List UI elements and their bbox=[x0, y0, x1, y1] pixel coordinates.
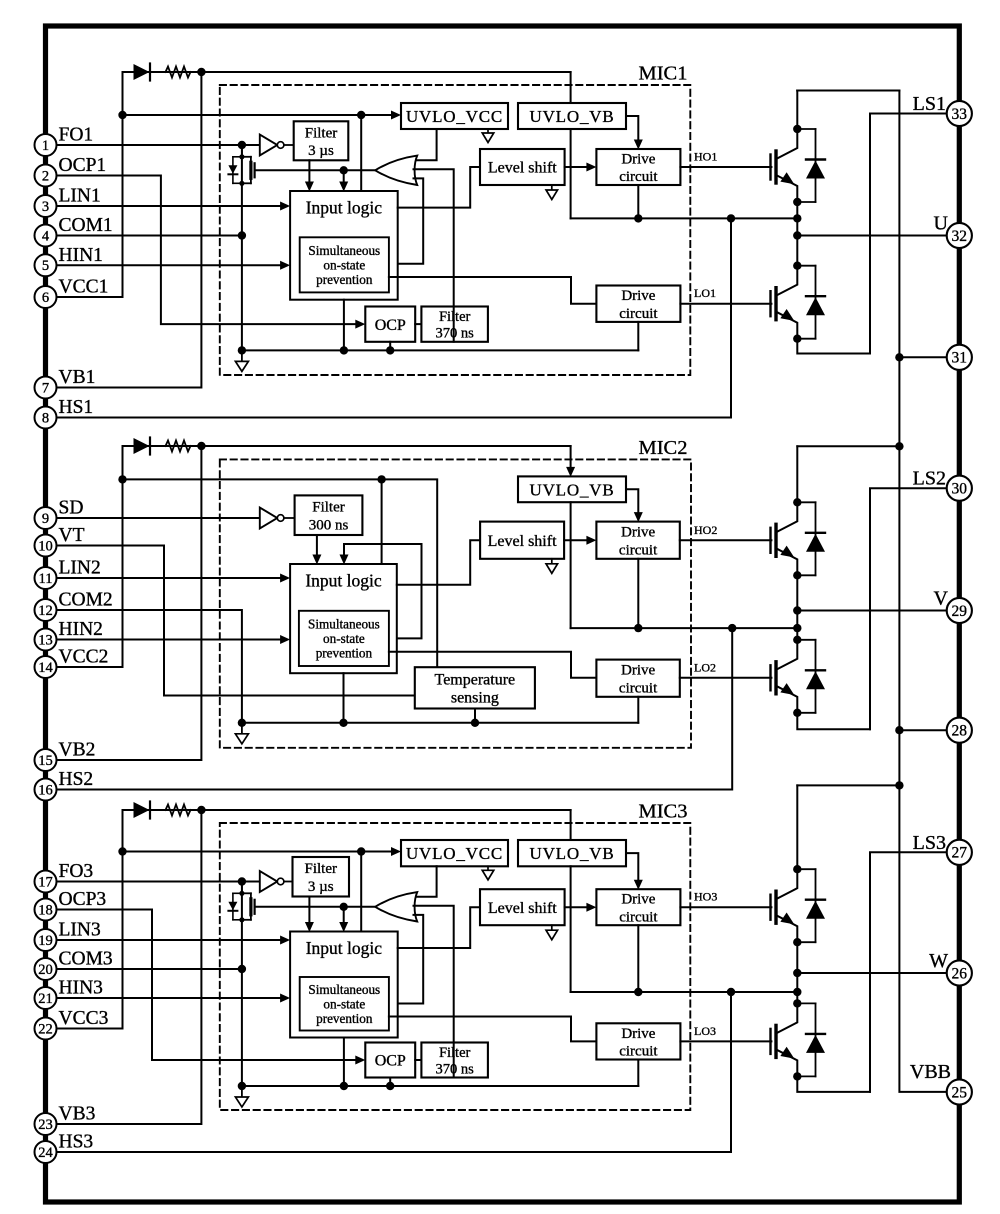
bootstrap wire to UVLO_VB (MIC3) bbox=[123, 810, 571, 863]
wire HS3 to pin bbox=[56, 992, 731, 1152]
wire emitter bbox=[776, 1049, 797, 1076]
wire LO1 bbox=[680, 303, 771, 305]
wire level shift to drive (MIC1) bbox=[565, 166, 593, 168]
wire fault to input logic (MIC1) bbox=[343, 170, 345, 188]
low-side Drive circuit (MIC3) bbox=[596, 1023, 680, 1059]
svg-text:V: V bbox=[934, 588, 949, 610]
pin 2 bbox=[35, 165, 57, 187]
svg-text:W: W bbox=[929, 950, 948, 972]
svg-text:LIN3: LIN3 bbox=[59, 920, 101, 941]
pin 24 bbox=[35, 1141, 57, 1163]
phase node wire 3 bbox=[796, 942, 798, 1003]
wire HIN3 bbox=[56, 997, 286, 999]
wire HO2 bbox=[680, 539, 772, 541]
node P-bus junction phase 2 bbox=[895, 442, 903, 450]
bootstrap diode D3 bbox=[123, 809, 134, 811]
wire input logic to level shift (MIC1) bbox=[398, 167, 480, 208]
wire prevention to low drive (MIC2) bbox=[389, 652, 597, 678]
svg-text:29: 29 bbox=[952, 603, 968, 620]
pin 12 bbox=[35, 599, 57, 621]
svg-text:OCP: OCP bbox=[375, 317, 406, 334]
freewheel diode bbox=[797, 501, 815, 503]
bootstrap resistor R3 bbox=[151, 809, 166, 811]
wire drive to floating ref (MIC2) bbox=[637, 559, 639, 628]
Simultaneous on-state prevention (MIC1) bbox=[300, 237, 389, 292]
svg-text:9: 9 bbox=[42, 511, 49, 527]
wire level shift to drive (MIC3) bbox=[565, 906, 593, 908]
svg-text:VCC3: VCC3 bbox=[59, 1008, 109, 1029]
svg-text:14: 14 bbox=[38, 660, 53, 676]
svg-text:28: 28 bbox=[952, 723, 968, 740]
svg-text:circuit: circuit bbox=[619, 680, 658, 696]
svg-text:circuit: circuit bbox=[619, 306, 658, 322]
pin 8 bbox=[35, 407, 57, 429]
level shift status arrow (MIC1) bbox=[551, 185, 553, 190]
svg-text:FO3: FO3 bbox=[59, 861, 94, 882]
wire VCC sense bus (MIC2) bbox=[123, 479, 438, 667]
Filter 3 us (MIC1) bbox=[294, 121, 349, 160]
svg-text:UVLO_VB: UVLO_VB bbox=[530, 844, 615, 863]
pin 33 bbox=[947, 101, 972, 126]
svg-text:20: 20 bbox=[38, 962, 53, 978]
wire OCP1 from pin bbox=[56, 176, 361, 325]
wire LO3 bbox=[680, 1040, 771, 1042]
wire prevention to low drive (MIC3) bbox=[389, 1017, 597, 1042]
bootstrap wire to UVLO_VB (MIC1) bbox=[123, 72, 571, 126]
pin 21 bbox=[35, 987, 57, 1009]
node logic-supply junction (MIC1) bbox=[357, 111, 365, 119]
wire UVLO_VCC to OR gate (MIC1) bbox=[414, 129, 437, 160]
svg-text:UVLO_VB: UVLO_VB bbox=[530, 107, 615, 126]
OR gate (fault logic) bbox=[375, 156, 417, 185]
wire UVLO_VB to floating reference (MIC1) bbox=[570, 129, 572, 218]
svg-text:LIN2: LIN2 bbox=[59, 558, 101, 579]
bootstrap diode D2 bbox=[123, 445, 134, 447]
wire emitter bbox=[776, 312, 797, 339]
node P-bus junction phase 3 bbox=[895, 781, 903, 789]
collector rail phase 1 bbox=[797, 90, 899, 92]
node collector junction bbox=[793, 125, 801, 133]
wire collector bbox=[776, 129, 797, 159]
node VB1 bootstrap junction bbox=[197, 68, 205, 76]
svg-text:circuit: circuit bbox=[619, 909, 658, 925]
wire filter370 to OR (MIC1) bbox=[453, 307, 455, 342]
svg-text:HS2: HS2 bbox=[59, 769, 94, 790]
node COM3 junction bbox=[238, 965, 246, 973]
inverter / buffer bbox=[260, 871, 278, 892]
pin 25 bbox=[947, 1079, 972, 1104]
Level shift (MIC1) bbox=[480, 149, 565, 185]
svg-text:5: 5 bbox=[42, 258, 49, 274]
svg-text:6: 6 bbox=[42, 290, 49, 306]
ground bus (MIC2) bbox=[242, 722, 638, 724]
wire output V to pin bbox=[797, 610, 947, 612]
wire HIN2 bbox=[56, 639, 286, 641]
phase node wire 2 bbox=[796, 575, 798, 640]
wire emitter bbox=[776, 175, 797, 202]
svg-text:HO3: HO3 bbox=[694, 890, 717, 904]
node VCC sense junction (MIC1) bbox=[118, 111, 126, 119]
wire fault to input logic (MIC3) bbox=[343, 907, 345, 929]
ground symbol (MIC3) bbox=[241, 1086, 243, 1097]
level shift status arrow (MIC2) bbox=[551, 559, 553, 564]
low-side Drive circuit (MIC1) bbox=[596, 286, 680, 322]
wire low emitter phase 3 bbox=[797, 1076, 870, 1092]
wire COM3 bbox=[56, 968, 242, 970]
svg-text:Input logic: Input logic bbox=[306, 938, 383, 958]
svg-text:MIC3: MIC3 bbox=[639, 801, 688, 823]
wire collector bbox=[776, 640, 797, 670]
wire HIN1 bbox=[56, 264, 286, 266]
svg-text:on-state: on-state bbox=[323, 631, 365, 646]
wire OR input from prevention (MIC1) bbox=[389, 178, 423, 263]
pin 19 bbox=[35, 929, 57, 951]
node floating-ref junction phase 2 bbox=[793, 624, 801, 632]
wire level shift to drive (MIC2) bbox=[564, 539, 592, 541]
svg-text:8: 8 bbox=[42, 410, 49, 426]
svg-text:circuit: circuit bbox=[619, 169, 658, 185]
collector rail phase 3 bbox=[797, 784, 899, 786]
wire gate bbox=[769, 665, 771, 690]
pin 6 bbox=[35, 286, 57, 308]
svg-text:HS3: HS3 bbox=[59, 1132, 94, 1153]
collector rail phase 2 bbox=[797, 445, 899, 447]
UVLO_VCC (MIC3) bbox=[401, 840, 508, 866]
pin 9 bbox=[35, 507, 57, 529]
node collector junction bbox=[793, 636, 801, 644]
ground bus (MIC1) bbox=[242, 349, 638, 351]
svg-text:1: 1 bbox=[42, 138, 49, 154]
wire collector riser phase 1 bbox=[796, 91, 798, 130]
Filter 370 ns (MIC1) bbox=[421, 307, 488, 342]
node logic-supply junction (MIC3) bbox=[357, 847, 365, 855]
node FO1 junction bbox=[238, 141, 246, 149]
svg-text:circuit: circuit bbox=[619, 1043, 658, 1059]
svg-text:Input logic: Input logic bbox=[305, 571, 382, 591]
node HS1 junction bbox=[727, 214, 735, 222]
wire HO3 bbox=[680, 906, 771, 908]
UVLO_VCC (MIC1) bbox=[401, 103, 508, 129]
wire gate bbox=[769, 155, 771, 180]
svg-text:UVLO_VCC: UVLO_VCC bbox=[406, 107, 503, 126]
svg-text:FO1: FO1 bbox=[59, 125, 94, 146]
wire UVLO_VB to drive enable (MIC2) bbox=[626, 489, 638, 518]
wire gate bbox=[769, 1029, 771, 1054]
wire emitter bbox=[776, 915, 797, 942]
fault-output MOSFET bbox=[241, 882, 243, 894]
svg-text:COM2: COM2 bbox=[59, 590, 113, 611]
low-side Drive circuit (MIC2) bbox=[596, 660, 679, 697]
wire collector riser phase 3 bbox=[796, 785, 798, 869]
UVLO_VB (MIC1) bbox=[518, 103, 626, 129]
svg-text:HO2: HO2 bbox=[694, 523, 717, 537]
wire OCP to filter (MIC1) bbox=[415, 323, 421, 325]
wire filter to input logic (MIC3) bbox=[308, 897, 310, 929]
svg-text:circuit: circuit bbox=[619, 542, 658, 558]
Simultaneous on-state prevention (MIC2) bbox=[299, 611, 389, 666]
svg-text:Simultaneous: Simultaneous bbox=[308, 616, 380, 631]
bootstrap resistor R1 bbox=[151, 71, 166, 73]
svg-text:30: 30 bbox=[952, 481, 968, 498]
wire UVLO_VB to floating reference (MIC2) bbox=[570, 502, 572, 628]
wire UVLO_VB to floating reference (MIC3) bbox=[570, 866, 572, 992]
pin 32 bbox=[947, 223, 972, 248]
freewheel diode bbox=[797, 1002, 815, 1004]
wire OR input from filter 370 (MIC1) bbox=[414, 169, 454, 341]
wire collector bbox=[776, 502, 797, 532]
svg-text:27: 27 bbox=[952, 845, 968, 862]
svg-text:21: 21 bbox=[38, 991, 53, 1007]
node VCC sense junction (MIC2) bbox=[118, 475, 126, 483]
svg-text:370 ns: 370 ns bbox=[436, 325, 475, 341]
svg-text:370 ns: 370 ns bbox=[436, 1061, 475, 1077]
pin 7 bbox=[35, 377, 57, 399]
svg-text:Simultaneous: Simultaneous bbox=[308, 243, 380, 258]
wire pin 31 to P-bus bbox=[899, 356, 947, 358]
svg-text:VB3: VB3 bbox=[59, 1104, 96, 1125]
wire logic supply into Input logic (MIC3) bbox=[360, 852, 362, 932]
wire collector riser phase 2 bbox=[796, 446, 798, 502]
Input logic (MIC1) bbox=[290, 191, 398, 300]
wire collector bbox=[776, 1003, 797, 1033]
svg-text:on-state: on-state bbox=[323, 996, 365, 1011]
pin 3 bbox=[35, 195, 57, 217]
wire filter370 to OR (MIC3) bbox=[453, 1043, 455, 1078]
node VCC sense junction (MIC3) bbox=[118, 847, 126, 855]
wire VCC to UVLO_VCC (MIC1) bbox=[123, 114, 398, 116]
wire SD from pin bbox=[56, 517, 259, 519]
MIC1 dashed block bbox=[220, 85, 691, 375]
svg-text:U: U bbox=[934, 213, 949, 235]
wire temp sensing to ground (MIC2) bbox=[474, 709, 476, 723]
svg-text:Level shift: Level shift bbox=[488, 160, 557, 177]
svg-text:12: 12 bbox=[38, 603, 53, 619]
node emitter junction bbox=[793, 198, 801, 206]
Level shift (MIC3) bbox=[480, 889, 565, 925]
node emitter junction bbox=[793, 709, 801, 717]
svg-text:31: 31 bbox=[952, 350, 968, 367]
ground bus (MIC3) bbox=[242, 1085, 638, 1087]
node floating-ref junction phase 1 bbox=[793, 214, 801, 222]
pin 20 bbox=[35, 958, 57, 980]
wire VCC1 bbox=[56, 296, 122, 298]
svg-text:2: 2 bbox=[42, 168, 49, 184]
wire LIN1 bbox=[56, 205, 286, 207]
wire VCC3 bbox=[56, 1028, 122, 1030]
svg-text:Level shift: Level shift bbox=[488, 533, 557, 550]
node emitter junction bbox=[793, 335, 801, 343]
svg-text:Drive: Drive bbox=[621, 288, 655, 304]
svg-text:16: 16 bbox=[38, 782, 53, 798]
wire emitter bbox=[776, 548, 797, 575]
svg-text:VCC1: VCC1 bbox=[59, 277, 109, 298]
svg-text:HO1: HO1 bbox=[694, 150, 717, 164]
wire floating reference HS3 bbox=[571, 991, 798, 993]
wire drive to floating ref (MIC1) bbox=[637, 185, 639, 218]
node collector junction bbox=[793, 262, 801, 270]
pin 1 bbox=[35, 134, 57, 156]
node VB3 bootstrap junction bbox=[197, 806, 205, 814]
Filter 3 us (MIC3) bbox=[293, 857, 350, 897]
wire input logic to ground (MIC3) bbox=[343, 1038, 345, 1087]
phase node wire 1 bbox=[796, 202, 798, 266]
zener diode (FET protection) bbox=[233, 156, 242, 158]
svg-text:15: 15 bbox=[38, 753, 53, 769]
svg-text:COM1: COM1 bbox=[59, 215, 113, 236]
zener diode (FET protection) bbox=[233, 892, 242, 894]
pin 4 bbox=[35, 225, 57, 247]
svg-text:LS1: LS1 bbox=[913, 93, 946, 115]
svg-text:32: 32 bbox=[952, 228, 968, 245]
svg-text:MIC2: MIC2 bbox=[639, 437, 688, 459]
svg-text:7: 7 bbox=[42, 380, 49, 396]
wire VCC3 vertical bbox=[122, 810, 124, 1029]
node emitter junction bbox=[793, 571, 801, 579]
svg-text:HS1: HS1 bbox=[59, 397, 94, 418]
node OCP-gnd junction (MIC1) bbox=[386, 346, 394, 354]
svg-text:HIN2: HIN2 bbox=[59, 619, 103, 640]
pin 18 bbox=[35, 899, 57, 921]
bootstrap wire to UVLO_VB (MIC2) bbox=[123, 446, 571, 473]
svg-text:Input logic: Input logic bbox=[306, 198, 383, 218]
wire VCC2 bbox=[56, 666, 122, 668]
wire FO1 from pin bbox=[56, 144, 259, 146]
svg-text:11: 11 bbox=[39, 571, 53, 587]
wire VB1 to bootstrap bbox=[56, 72, 201, 388]
node output junction V bbox=[793, 606, 801, 614]
freewheel diode bbox=[797, 265, 815, 267]
wire OR input from prevention (MIC3) bbox=[389, 915, 423, 1004]
UVLO_VB (MIC3) bbox=[518, 840, 626, 866]
wire COM2 bbox=[56, 610, 242, 723]
node VB2 bootstrap junction bbox=[197, 442, 205, 450]
wire logic supply into Input logic (MIC1) bbox=[360, 115, 362, 191]
pin 5 bbox=[35, 254, 57, 276]
wire pin 28 to P-bus bbox=[899, 729, 947, 731]
wire floating reference HS1 bbox=[571, 217, 798, 219]
pin 16 bbox=[35, 779, 57, 801]
svg-text:Level shift: Level shift bbox=[488, 900, 557, 917]
wire collector bbox=[776, 869, 797, 899]
wire LIN3 bbox=[56, 939, 286, 941]
pin 17 bbox=[35, 871, 57, 893]
node logic-supply junction (MIC2) bbox=[377, 475, 385, 483]
wire filter to input logic (MIC2) bbox=[316, 535, 318, 561]
svg-text:LS2: LS2 bbox=[913, 468, 946, 490]
wire UVLO_VB to drive enable (MIC1) bbox=[626, 116, 638, 146]
wire low emitter phase 2 bbox=[797, 713, 870, 729]
Simultaneous on-state prevention (MIC3) bbox=[300, 977, 389, 1031]
UVLO_VCC status arrow (MIC1) bbox=[487, 129, 489, 133]
wire low emitter phase 1 bbox=[797, 339, 870, 354]
node floating-ref junction phase 3 bbox=[793, 988, 801, 996]
node collector junction bbox=[793, 865, 801, 873]
wire HO1 bbox=[680, 166, 771, 168]
svg-text:Drive: Drive bbox=[621, 151, 655, 167]
wire emitter bbox=[776, 686, 797, 713]
node HS2 junction bbox=[728, 624, 736, 632]
Input logic (MIC3) bbox=[290, 932, 398, 1038]
svg-text:3 µs: 3 µs bbox=[308, 143, 334, 159]
pin 11 bbox=[35, 567, 57, 589]
MIC3 dashed block bbox=[220, 823, 691, 1110]
wire output W to pin bbox=[797, 972, 947, 974]
node drive ref junction (MIC1) bbox=[634, 214, 642, 222]
svg-text:13: 13 bbox=[38, 632, 53, 648]
ground symbol (MIC1) bbox=[241, 350, 243, 361]
wire LS2 sense bbox=[870, 488, 947, 729]
wire LIN2 bbox=[56, 577, 286, 579]
freewheel diode bbox=[797, 128, 815, 130]
Input logic (MIC2) bbox=[290, 564, 397, 673]
svg-text:3: 3 bbox=[42, 199, 49, 215]
node input-gnd junction (MIC1) bbox=[340, 346, 348, 354]
node output junction U bbox=[793, 231, 801, 239]
level shift status arrow (MIC3) bbox=[551, 925, 553, 930]
wire OR output to FET gate (MIC3) bbox=[255, 906, 376, 908]
wire gate bbox=[769, 291, 771, 316]
node emitter junction bbox=[793, 938, 801, 946]
wire COM3 vertical bbox=[241, 882, 243, 1087]
svg-text:Filter: Filter bbox=[439, 309, 471, 325]
svg-text:25: 25 bbox=[952, 1084, 968, 1101]
node input-gnd junction (MIC3) bbox=[340, 1082, 348, 1090]
node ground corner (MIC1) bbox=[238, 346, 246, 354]
svg-text:Filter: Filter bbox=[305, 125, 338, 141]
svg-text:18: 18 bbox=[38, 902, 53, 918]
pin 15 bbox=[35, 749, 57, 771]
Filter 300 ns (MIC2) bbox=[295, 495, 363, 535]
high-side Drive circuit (MIC3) bbox=[596, 889, 680, 925]
svg-text:Drive: Drive bbox=[621, 663, 655, 679]
wire input logic to ground (MIC2) bbox=[343, 673, 345, 723]
svg-text:prevention: prevention bbox=[316, 646, 373, 661]
svg-text:10: 10 bbox=[38, 538, 53, 554]
svg-text:SD: SD bbox=[59, 498, 84, 519]
svg-text:Filter: Filter bbox=[439, 1045, 471, 1061]
svg-text:HIN1: HIN1 bbox=[59, 245, 103, 266]
svg-text:VT: VT bbox=[59, 525, 85, 546]
pin 14 bbox=[35, 656, 57, 678]
wire low drive to ground (MIC1) bbox=[637, 322, 639, 351]
wire gate bbox=[769, 895, 771, 920]
svg-text:17: 17 bbox=[38, 874, 53, 890]
svg-text:OCP: OCP bbox=[375, 1053, 406, 1070]
freewheel diode bbox=[797, 639, 815, 641]
wire COM1 vertical bbox=[241, 145, 243, 350]
Filter 370 ns (MIC3) bbox=[421, 1043, 488, 1078]
wire OCP to ground (MIC3) bbox=[389, 1078, 391, 1087]
svg-text:OCP3: OCP3 bbox=[59, 889, 107, 910]
svg-text:Drive: Drive bbox=[621, 525, 655, 541]
pin 26 bbox=[947, 960, 972, 985]
node collector junction bbox=[793, 498, 801, 506]
Level shift (MIC2) bbox=[480, 522, 564, 559]
node output junction W bbox=[793, 969, 801, 977]
MIC2 dashed block bbox=[220, 459, 691, 747]
svg-text:LO3: LO3 bbox=[694, 1024, 716, 1038]
pin 29 bbox=[947, 598, 972, 623]
wire VT from pin bbox=[56, 546, 415, 696]
UVLO_VB (MIC2) bbox=[518, 476, 626, 502]
svg-text:LO2: LO2 bbox=[694, 660, 716, 674]
wire VCC to UVLO_VCC (MIC3) bbox=[123, 851, 398, 853]
svg-text:22: 22 bbox=[38, 1021, 53, 1037]
svg-text:26: 26 bbox=[952, 965, 968, 982]
wire UVLO_VCC to OR gate (MIC3) bbox=[414, 866, 437, 896]
svg-text:Simultaneous: Simultaneous bbox=[308, 982, 380, 997]
wire VCC1 vertical bbox=[122, 72, 124, 297]
